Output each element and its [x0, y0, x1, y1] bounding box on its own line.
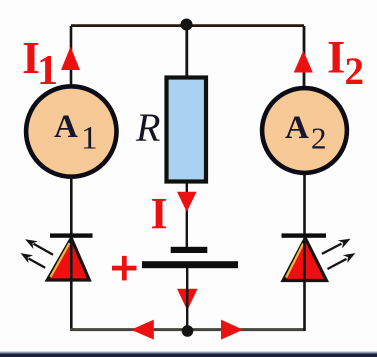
wire bottom	[70, 328, 305, 331]
ammeter A1	[26, 86, 116, 176]
LED D2	[282, 233, 356, 282]
node top junction	[181, 19, 193, 31]
node bottom junction	[182, 325, 194, 337]
wire top	[71, 24, 304, 27]
svg-text:R: R	[135, 105, 160, 150]
current arrow pointing left on bottom wire	[131, 320, 154, 340]
current arrow I1	[61, 47, 80, 71]
svg-text:1: 1	[81, 121, 98, 157]
LED D1	[21, 233, 93, 282]
svg-text:I: I	[151, 189, 168, 238]
wire middle branch upper	[185, 25, 188, 78]
wire left branch upper	[70, 26, 73, 88]
ammeter A2	[262, 88, 347, 173]
battery B1	[142, 247, 238, 268]
current arrow pointing right on bottom wire	[221, 320, 243, 340]
current arrow I (below resistor)	[177, 192, 197, 212]
wire right branch middle	[303, 174, 306, 234]
current arrow below battery	[177, 289, 198, 311]
svg-text:A: A	[54, 109, 78, 145]
svg-text:A: A	[285, 110, 309, 146]
wire middle branch resistor-to-arrow	[186, 183, 188, 248]
resistor R	[167, 78, 207, 182]
label I2	[327, 32, 364, 94]
wire middle branch lower	[186, 268, 188, 330]
svg-text:I: I	[327, 32, 345, 84]
wire right branch upper	[303, 26, 306, 88]
wire left branch lower	[70, 279, 73, 331]
wire right branch lower	[303, 279, 306, 331]
wire left branch middle	[70, 176, 73, 234]
current arrow I2	[294, 51, 313, 73]
label I1	[22, 32, 58, 94]
svg-text:2: 2	[345, 50, 365, 93]
label + (battery polarity)	[112, 256, 137, 281]
svg-text:2: 2	[311, 121, 327, 156]
